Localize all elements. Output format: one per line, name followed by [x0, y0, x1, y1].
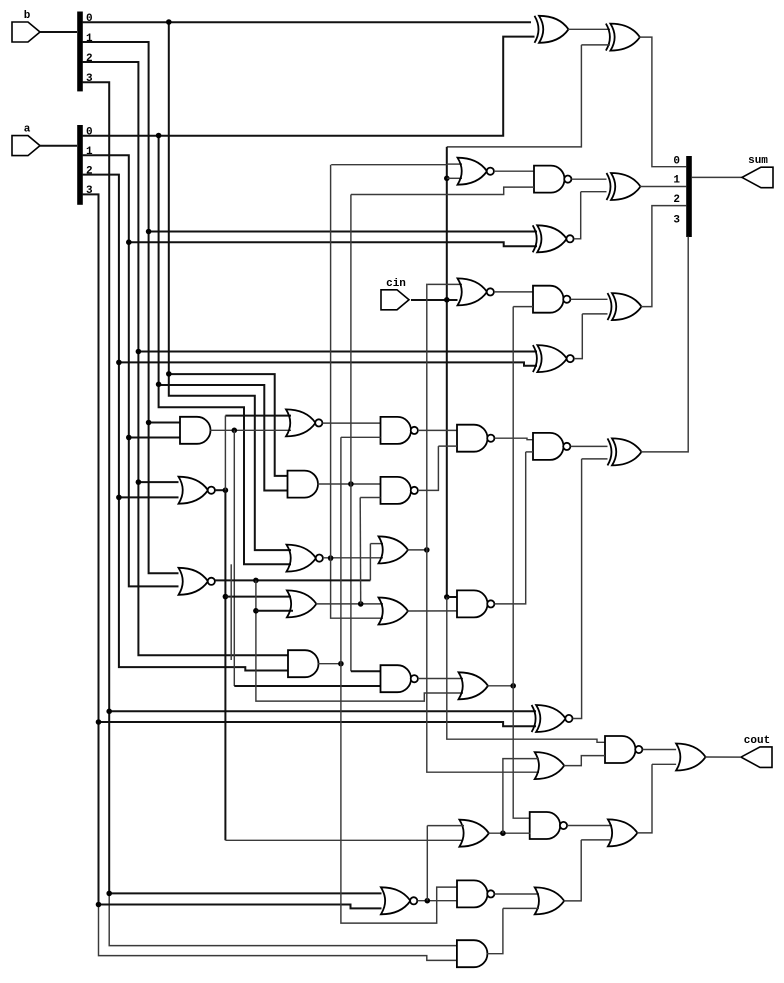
wire OR15-net to NAND5 b	[513, 306, 533, 308]
wire NOR3 out to NAND5 a	[494, 291, 533, 293]
nand gate NAND27	[530, 812, 567, 839]
wire XNOR2 out riser to XOR3	[574, 192, 581, 239]
wire b1 vertical x=148	[82, 42, 179, 573]
wire NOR10-net to NOR-c0 a	[331, 164, 447, 166]
splitter b (4-bit)	[77, 12, 83, 92]
wire NAND1 out to XOR3 a	[572, 178, 607, 180]
wire a3 to NOR18 b	[99, 905, 382, 909]
svg-text:2: 2	[673, 194, 680, 206]
wire XOR3 out to sum splitter bit1	[640, 186, 686, 188]
svg-text:0: 0	[86, 13, 93, 25]
wire NAND7 out to XOR5 a	[571, 445, 608, 447]
junction b2 NOR1	[136, 479, 142, 485]
wire NOR1-net vertical upper	[224, 416, 226, 491]
wire a1 vertical x=129	[82, 155, 179, 586]
wire AND1-net to NAND14 b	[234, 685, 380, 687]
wire OR16-net to NAND6 b	[360, 497, 380, 499]
wire XNOR17 out riser to XOR5 b	[573, 459, 582, 719]
wire NOR8-net to OR15 b	[256, 580, 463, 701]
wire AND20 out riser to OR28 b	[487, 908, 503, 953]
wire XOR2 out to sum splitter bit0	[639, 37, 686, 167]
wire NAND27 out to OR26 a	[567, 825, 612, 827]
junction cin NAND13 a	[444, 594, 450, 600]
or gate OR26	[608, 819, 638, 846]
wire OR26 out riser to OR25 b	[637, 764, 652, 833]
wire NOR1-net to OR21 b	[225, 839, 463, 841]
and gate AND20 (b3,a3)	[457, 940, 488, 967]
wire OR15-net riser to NAND5 b	[512, 307, 514, 686]
and gate AND9 (b2,a2)	[288, 650, 319, 677]
wire b0 branch staircase to NOR10 a	[169, 22, 291, 550]
svg-text:cout: cout	[744, 735, 770, 747]
svg-text:b: b	[24, 10, 31, 22]
wire to NOR-c0 a stub	[447, 163, 462, 165]
nand gate NAND3	[381, 417, 418, 444]
wire OR21-net riser to OR22 a	[503, 759, 539, 834]
output pin cout	[741, 747, 772, 768]
junction cin NOR-c0 b	[444, 176, 450, 182]
wire XOR4 out to sum splitter bit2	[641, 206, 686, 307]
wire XNOR2-net to XOR3 b	[581, 191, 607, 193]
junction b1 XNOR2	[146, 229, 152, 235]
wire b0 branch to AND5 a	[169, 374, 288, 476]
wire cin vertical x=447	[447, 147, 458, 597]
junction OR21 out	[500, 830, 506, 836]
nand gate NAND19	[457, 880, 494, 907]
wire a3 vertical x=98	[82, 194, 99, 904]
wire AND1 out to NOR2 b	[210, 429, 291, 431]
xnor gate XNOR2 (b1,a1)	[533, 225, 574, 252]
junction b1 AND1	[146, 420, 152, 426]
wire OR11-net to OR22 b	[427, 550, 539, 772]
wire sum splitter to pin	[692, 176, 742, 178]
or gate OR12	[379, 598, 409, 625]
xnor gate XNOR4 (b2,a2)	[533, 345, 574, 372]
wire XOR1 out to XOR2 a	[568, 28, 610, 30]
wire NAND13 out riser to NAND7 b	[495, 452, 526, 604]
nor gate NOR18 (b3,a3)	[381, 887, 417, 914]
junction NOR1-net OR16	[223, 594, 229, 600]
svg-text:2: 2	[86, 53, 93, 65]
junction NOR8-net OR16	[253, 608, 259, 614]
wire NOR2 out to NAND3 a	[323, 422, 381, 424]
wire AND5-net riser to NAND1	[350, 195, 352, 485]
junction OR16 out	[358, 601, 364, 607]
wire NOR18-net to OR21 a	[427, 825, 464, 827]
wire OR21 out to NAND27 b	[488, 832, 529, 834]
wire b3 vertical x=109	[82, 82, 109, 893]
wire OR28 out riser to OR26 b	[564, 840, 582, 901]
input pin a	[12, 136, 40, 156]
wire NAND19 out to OR28 a	[495, 893, 540, 895]
xor gate XOR5 (sum3)	[608, 438, 642, 465]
junction b3 NOR18	[106, 891, 112, 897]
or gate OR11	[379, 536, 409, 563]
wire OR25 out to cout pin	[705, 756, 741, 758]
wire a0 to XOR1 input b	[82, 37, 535, 136]
wire NOR10-net riser to NOR-c0	[330, 165, 332, 558]
wire OR15-net to NAND27 a	[513, 686, 530, 818]
junction a0 x=159	[156, 133, 162, 139]
nor gate NOR1 (b2,a2)	[179, 477, 215, 504]
junction OR11 out	[424, 547, 430, 553]
wire a0 branch to AND5 b	[159, 385, 288, 491]
junction a0 staircase	[156, 382, 162, 388]
junction b3 XNOR17	[106, 709, 112, 715]
nor gate NOR10 (b0,a0)	[287, 545, 323, 572]
wire XOR5 out to sum splitter bit3	[641, 237, 688, 452]
wire OR28-net to OR26 b	[581, 839, 612, 841]
wire XNOR17-net to XOR5 b	[582, 458, 608, 460]
svg-text:sum: sum	[748, 155, 768, 167]
wire AND5 out to NAND6 a	[318, 483, 381, 485]
nand gate NAND14	[381, 665, 418, 692]
or gate OR28	[535, 887, 565, 914]
junction AND9 out	[338, 661, 344, 667]
nor gate NOR3	[458, 278, 494, 305]
wire a2 vertical x=119	[82, 175, 288, 671]
wire AND5-net vertical lower	[350, 484, 352, 671]
junction a3 XNOR17	[96, 719, 102, 725]
splitter a (4-bit)	[77, 125, 83, 205]
wire a2 to NOR1 b	[119, 496, 179, 498]
wire a pin to splitter	[40, 145, 77, 147]
input pin cin	[381, 290, 409, 310]
wire b3 to XNOR17 a	[109, 710, 536, 712]
wire OR16 out to OR12 a	[316, 603, 383, 605]
and gate AND1 (b1,a1)	[180, 417, 211, 444]
wire b2 to XNOR4 a	[138, 351, 537, 353]
wire b3 to NOR18 a	[109, 892, 381, 894]
wire AND9-net to NAND19 a	[341, 664, 457, 923]
junction b2 XNOR4	[136, 349, 142, 355]
svg-text:1: 1	[673, 175, 680, 187]
output pin sum	[742, 167, 773, 188]
wire NOR10-net to OR12 b	[331, 558, 383, 618]
wire NOR1-net to OR16 a	[225, 596, 291, 598]
nand gate NAND4	[457, 425, 494, 452]
svg-text:0: 0	[673, 155, 680, 167]
wire OR22 out to NAND24 b	[564, 756, 605, 766]
svg-text:cin: cin	[386, 278, 406, 290]
wire NOR1-net vertical x=225	[224, 490, 226, 840]
junction a2 XNOR4	[116, 360, 122, 366]
wire NOR8-net to OR11 a	[370, 543, 383, 545]
nand gate NAND24	[605, 736, 642, 763]
wire a0 branch staircase to NOR10 b	[159, 136, 291, 565]
wire OR15 out	[488, 685, 514, 687]
wire OR26-net to OR25 b	[652, 763, 676, 765]
junction NOR18 out	[425, 898, 431, 904]
junction NOR1 out	[223, 487, 229, 493]
xor gate XOR2 (sum0)	[606, 24, 640, 51]
wire OR11-net riser to NOR3 a	[426, 284, 428, 550]
wire NOR10 out to OR11 b	[323, 557, 383, 559]
nor gate NOR-c0	[458, 158, 494, 185]
wire b2 vertical x=138	[82, 62, 288, 655]
svg-text:a: a	[24, 124, 31, 136]
xor gate XOR4 (sum2)	[608, 293, 642, 320]
wire b1 to XNOR2 a	[149, 231, 537, 233]
junction a2 NOR1	[116, 495, 122, 501]
wire AND5-net to NAND1 b	[351, 187, 534, 194]
and gate AND5 (b0,a0)	[288, 471, 319, 498]
nor gate NOR2	[286, 409, 322, 436]
wire NOR-c0 out to NAND1 a	[494, 170, 534, 172]
wire a2 to XNOR4 b	[119, 362, 537, 365]
wire NAND24 out to OR25 a	[643, 749, 677, 751]
wire NAND4 out to NAND7 a	[495, 438, 534, 440]
xor gate XOR1 (b0^a0)	[535, 16, 569, 43]
wire a1 to XNOR2 b	[129, 242, 537, 246]
wire OR12 out to NAND13 b	[408, 610, 458, 612]
wire AND9-net riser to NAND3 b	[340, 437, 342, 663]
svg-text:3: 3	[673, 215, 680, 227]
input pin b	[12, 22, 40, 42]
wire AND9 out	[318, 663, 341, 665]
wire b pin to splitter	[40, 31, 77, 33]
wire XNOR4-net to XOR4 b	[582, 313, 607, 315]
wire AND20-net to OR28 b	[503, 907, 539, 909]
wire NOR8-net to OR16 b	[256, 610, 293, 612]
wire cin-net to NAND13 a stub	[447, 596, 457, 598]
nand gate NAND13	[457, 590, 494, 617]
wire NAND6 out riser to NAND4 b	[418, 446, 438, 490]
junction b0 staircase	[166, 371, 172, 377]
junction a3 NOR18	[96, 902, 102, 908]
wire a3 branch to AND20 b	[99, 905, 457, 961]
wire NAND13-net to NAND7 b	[526, 451, 533, 453]
wire a1 to AND1 b	[129, 437, 180, 439]
xnor gate XNOR17 (b3,a3)	[532, 705, 573, 732]
wire cin-net to XOR2 b	[581, 44, 610, 46]
wire NAND14 out to OR15 a	[418, 678, 463, 680]
wire b1 to AND1 a	[149, 422, 180, 424]
wire NOR8 out	[215, 579, 370, 581]
junction NOR10 out	[328, 555, 334, 561]
wire XNOR4 out riser to XOR4	[574, 314, 582, 359]
wire AND5-net to NAND14 a	[351, 670, 381, 672]
or gate OR21	[459, 820, 489, 847]
junction AND1 out	[232, 428, 238, 434]
wire NOR1 out	[215, 489, 225, 491]
wire a3 to XNOR17 b	[99, 722, 537, 726]
or gate OR15	[459, 672, 489, 699]
junction cin pin	[444, 297, 450, 303]
wire OR11-net to NOR3 a	[427, 283, 462, 285]
junction AND5 out	[348, 481, 354, 487]
wire OR11 out	[408, 549, 428, 551]
wire NAND3 out to NAND4 a	[418, 429, 457, 431]
wire NOR1-net to NOR2 a	[225, 415, 291, 417]
or gate OR22	[535, 752, 565, 779]
junction b0 x=169	[166, 19, 172, 25]
wire branch x=231 down	[230, 564, 232, 660]
wire cin to NOR-c0 b stub	[447, 177, 462, 179]
wire cin-net to NAND24 a	[447, 597, 605, 742]
wire OR16-net riser to NAND6 b	[359, 498, 362, 604]
wire cin pin to NOR3 b	[411, 299, 458, 301]
junction NOR8 out	[253, 578, 259, 584]
nand gate NAND7	[533, 433, 570, 460]
wire NOR8-net riser to OR11 a	[369, 544, 371, 581]
wire b3 branch to AND20 a	[109, 893, 457, 945]
wire NAND5 out to XOR4 a	[571, 298, 608, 300]
wire cin-net riser x=581	[447, 45, 582, 147]
wire NOR18-net riser to OR21 a	[426, 826, 428, 901]
junction a1 XNOR2	[126, 239, 132, 245]
junction a1 AND1	[126, 435, 132, 441]
wire b2 to NOR1 a	[138, 481, 178, 483]
nand gate NAND6	[381, 477, 418, 504]
nand gate NAND5	[533, 286, 570, 313]
xor gate XOR3 (sum1)	[607, 173, 641, 200]
splitter sum (4-bit)	[686, 156, 692, 237]
wire AND9-net to NAND3 b	[341, 436, 381, 438]
wire AND1-net vertical x=234	[233, 430, 235, 686]
or gate OR25 (cout)	[676, 744, 706, 771]
wire b0 to XOR1 input a	[82, 21, 531, 23]
nand gate NAND1	[534, 166, 571, 193]
or gate OR16	[287, 590, 317, 617]
junction OR15 out	[510, 683, 516, 689]
nor gate NOR8 (b1,a1)	[179, 568, 215, 595]
wire NOR18 out to NAND19 b	[417, 900, 457, 902]
wire NAND6-net to NAND4 b	[438, 445, 457, 447]
